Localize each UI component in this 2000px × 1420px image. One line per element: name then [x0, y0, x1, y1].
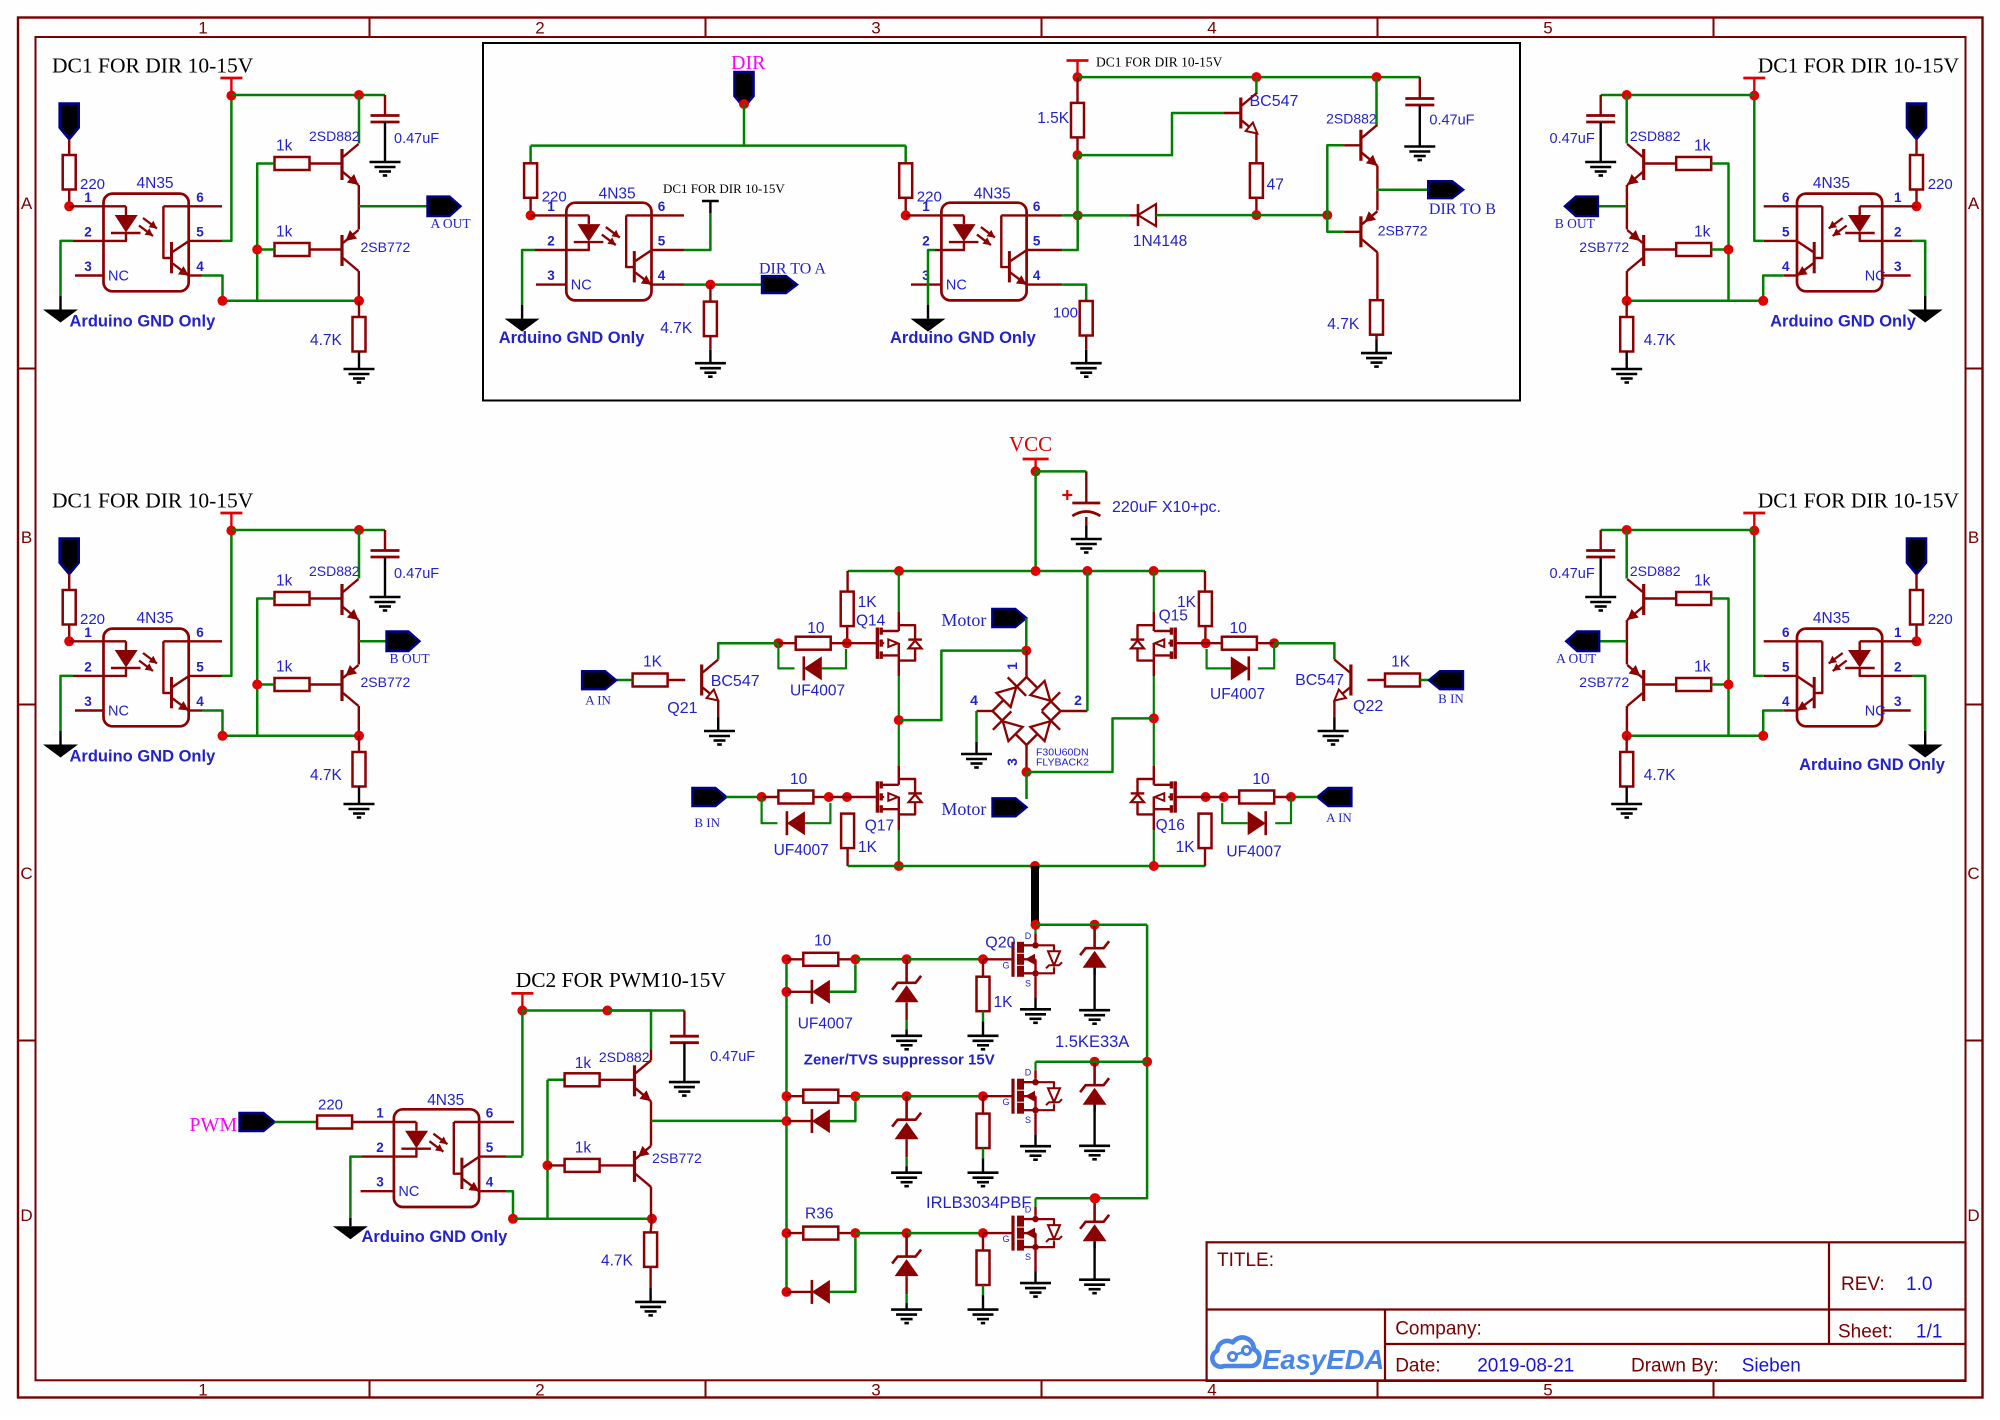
- power flag DC2: [511, 993, 533, 1010]
- svg-text:4: 4: [1033, 268, 1041, 283]
- wire [ML]: [189, 675, 222, 677]
- svg-text:6: 6: [196, 190, 204, 205]
- svg-text:1: 1: [198, 19, 207, 38]
- wire [MR]: [1599, 640, 1627, 643]
- wire [MR]: [1754, 530, 1763, 676]
- svg-text:EasyEDA: EasyEDA: [1262, 1344, 1384, 1375]
- wire: [718, 643, 778, 659]
- wire [ML]: [202, 711, 359, 736]
- junction: [978, 1091, 988, 1101]
- label 1k [ML]: [276, 659, 293, 676]
- wire [TR]: [1644, 162, 1677, 164]
- junction: [705, 280, 715, 290]
- wire: [787, 1291, 812, 1293]
- label pin2: [376, 1140, 384, 1155]
- svg-text:2SD882: 2SD882: [309, 128, 360, 144]
- label pin1: [547, 199, 555, 214]
- label 10: [807, 620, 825, 637]
- wire pin5 stub: [479, 1155, 506, 1157]
- svg-text:4: 4: [1782, 259, 1790, 274]
- label title [TR]: [1758, 54, 1960, 78]
- wire: [1275, 797, 1291, 823]
- label 1.5K: [1037, 110, 1070, 127]
- wire [TL]: [202, 276, 359, 301]
- wire: [982, 959, 984, 976]
- junction: [517, 1006, 527, 1016]
- svg-text:4: 4: [196, 259, 204, 274]
- wire: [928, 250, 935, 305]
- wire: [1367, 679, 1385, 681]
- wire: [1076, 155, 1079, 215]
- junction: [1286, 792, 1296, 802]
- svg-text:Arduino GND Only: Arduino GND Only: [890, 329, 1037, 347]
- wire [TL]: [358, 95, 361, 144]
- label 2SB772: [1378, 222, 1428, 238]
- junction dark: [1032, 1107, 1038, 1113]
- junction: [1090, 1193, 1100, 1203]
- ground [ML]: [370, 597, 401, 611]
- label Arduino GND Only [TR]: [1770, 313, 1917, 331]
- svg-text:2SD882: 2SD882: [599, 1049, 650, 1065]
- label pin1: [376, 1106, 384, 1121]
- junction [MR]: [1758, 731, 1768, 741]
- net label PWM: [189, 1114, 237, 1136]
- resistor 1.5K: [1071, 103, 1084, 137]
- wire: [855, 1232, 906, 1235]
- wire: [813, 796, 828, 798]
- svg-text:0.47uF: 0.47uF: [394, 131, 439, 147]
- label 4 (bridge): [970, 692, 978, 708]
- label Q21: [667, 700, 697, 717]
- wire pin3 stub: [911, 283, 941, 285]
- capacitor 0.47uF MR [MR]: [1586, 551, 1615, 558]
- capacitor 0.47uF TR [TR]: [1586, 116, 1615, 123]
- wire: [1085, 336, 1087, 350]
- svg-text:10: 10: [1230, 620, 1248, 637]
- junction [TL]: [252, 245, 262, 255]
- wire PWM out: [651, 1120, 787, 1123]
- svg-text:2019-08-21: 2019-08-21: [1477, 1356, 1574, 1377]
- wire [TL]: [68, 190, 70, 207]
- wire: [1376, 166, 1378, 211]
- label 2 (bridge): [1074, 692, 1082, 708]
- wire: [548, 1164, 565, 1166]
- wire [TR]: [1711, 248, 1728, 251]
- ground: [1361, 353, 1392, 367]
- svg-text:Arduino GND Only: Arduino GND Only: [1799, 756, 1946, 774]
- wire [TL]: [59, 296, 61, 310]
- junction: [508, 1214, 518, 1224]
- svg-text:2SD882: 2SD882: [1326, 111, 1377, 127]
- svg-text:2: 2: [535, 1381, 544, 1400]
- wire: [1255, 134, 1257, 163]
- pin header DIR: [735, 72, 754, 108]
- wire: [822, 649, 846, 668]
- label 4N35 [MR]: [1813, 610, 1850, 627]
- net label VCC: [1009, 432, 1052, 456]
- svg-text:1: 1: [376, 1106, 384, 1121]
- wire Q16 source: [1153, 809, 1155, 866]
- ground: [635, 1302, 666, 1316]
- wire: [709, 285, 711, 302]
- label DIR TO B: [1429, 201, 1496, 218]
- wire [MR]: [1599, 557, 1601, 597]
- label out port [ML]: [390, 651, 431, 666]
- resistor 10 (Q15 gate): [1222, 637, 1257, 650]
- port B OUT TR [TR]: [1565, 197, 1598, 217]
- label 47: [1267, 177, 1284, 194]
- wire: [982, 1011, 984, 1021]
- wire: [1093, 1105, 1095, 1146]
- label pin1 [TL]: [84, 190, 92, 205]
- mosfet Q15 (NMOS): [1131, 625, 1176, 660]
- svg-text:PWM: PWM: [189, 1114, 237, 1136]
- junction: [782, 1287, 792, 1297]
- wire: [726, 796, 761, 799]
- label Zener/TVS suppressor 15V: [804, 1052, 995, 1069]
- label 1K: [858, 594, 878, 611]
- wire: [787, 1095, 804, 1097]
- wire: [1327, 215, 1344, 232]
- wire pin3 stub: [536, 283, 566, 285]
- junction [TL]: [218, 296, 228, 306]
- wire: [787, 1120, 812, 1122]
- wire: [1062, 214, 1130, 217]
- port Motor (upper): [992, 609, 1026, 627]
- port B OUT ML [ML]: [387, 632, 420, 652]
- wire: [1094, 975, 1096, 976]
- label 4N35: [427, 1092, 464, 1109]
- svg-text:1K: 1K: [1176, 839, 1196, 856]
- junction: [1142, 1057, 1152, 1067]
- transistor BC547 Q22: [1334, 660, 1351, 701]
- diode UF4007 (row2): [812, 1109, 830, 1133]
- resistor 1K (row2): [977, 1114, 990, 1149]
- wire: [1204, 571, 1206, 592]
- wire: [350, 1157, 362, 1218]
- svg-text:1: 1: [84, 625, 92, 640]
- svg-text:6: 6: [1033, 199, 1041, 214]
- junction [ML]: [354, 731, 364, 741]
- resistor 1K (Q17 gate): [841, 814, 854, 849]
- wire Q14 source: [898, 655, 900, 784]
- wire [ML]: [384, 530, 386, 551]
- svg-text:3: 3: [871, 19, 880, 38]
- label Arduino GND Only [TL]: [70, 313, 217, 331]
- svg-text:NC: NC: [108, 269, 129, 285]
- label 2SD882 [TR]: [1630, 128, 1681, 144]
- wire right rail: [1036, 925, 1148, 1199]
- svg-text:1: 1: [547, 199, 555, 214]
- wire: [975, 711, 978, 742]
- svg-text:B: B: [21, 528, 32, 547]
- label R36: [805, 1205, 833, 1222]
- label pin3 [MR]: [1894, 694, 1902, 709]
- diode UF4007 (Q15): [1231, 656, 1249, 680]
- junction: [1372, 72, 1382, 82]
- label Q17: [865, 818, 894, 835]
- svg-text:6: 6: [1782, 190, 1790, 205]
- wire: [846, 848, 848, 866]
- resistor 1k lower ML [ML]: [275, 678, 310, 691]
- label Drawn By value: [1742, 1356, 1801, 1377]
- wire: [1027, 718, 1154, 772]
- label DC1 FOR DIR 10-15V: [663, 181, 785, 196]
- svg-text:2SB772: 2SB772: [1579, 674, 1629, 690]
- junction [MR]: [1749, 526, 1759, 536]
- svg-text:Motor: Motor: [941, 610, 986, 630]
- wire: [838, 958, 855, 960]
- label pin1: [922, 199, 930, 214]
- svg-text:DC1 FOR DIR 10-15V: DC1 FOR DIR 10-15V: [52, 54, 254, 78]
- svg-text:DIR TO B: DIR TO B: [1429, 201, 1496, 218]
- ground: [1020, 1009, 1051, 1023]
- svg-text:4.7K: 4.7K: [310, 767, 343, 784]
- label out port [MR]: [1556, 651, 1597, 666]
- wire: [855, 958, 906, 961]
- label 1k [TR]: [1694, 138, 1711, 155]
- resistor 220 TL [TL]: [63, 155, 76, 190]
- junction: [1090, 1193, 1100, 1203]
- wire: [1175, 642, 1206, 644]
- wire [MR]: [1626, 620, 1628, 665]
- label Arduino GND Only: [890, 329, 1037, 347]
- port A IN: [582, 671, 616, 689]
- wire [TR]: [1711, 164, 1728, 301]
- label pin5: [658, 234, 666, 249]
- wire [TL]: [68, 139, 70, 155]
- svg-text:BC547: BC547: [1295, 672, 1344, 689]
- svg-text:10: 10: [1252, 771, 1270, 788]
- ground [TL]: [344, 369, 375, 383]
- label pin3: [922, 268, 930, 283]
- svg-text:R36: R36: [805, 1205, 833, 1222]
- wire: [275, 1121, 318, 1124]
- label 1k [TL]: [276, 224, 293, 241]
- svg-text:A IN: A IN: [585, 693, 611, 708]
- svg-text:2: 2: [84, 660, 92, 675]
- diode bridge FLYBACK2 F30U60DN: [993, 677, 1061, 745]
- resistor 4.7K MR [MR]: [1620, 752, 1633, 787]
- label A IN: [1326, 810, 1352, 825]
- wire: [846, 571, 848, 592]
- ground Arduino GND [ML]: [43, 745, 78, 758]
- junction [TL]: [354, 90, 364, 100]
- wire: [982, 1295, 984, 1310]
- label 2SD882: [1326, 111, 1377, 127]
- resistor 10 (row2): [803, 1090, 838, 1103]
- wire: [787, 1232, 804, 1234]
- wire [MR]: [1882, 709, 1911, 711]
- label pin2 [TL]: [84, 225, 92, 240]
- wire: [983, 1232, 1013, 1234]
- wire: [649, 1288, 651, 1302]
- label A IN: [585, 693, 611, 708]
- wire [TL]: [310, 162, 343, 164]
- wire: [1333, 701, 1335, 718]
- wire [TR]: [1599, 95, 1601, 116]
- label 1K: [994, 994, 1014, 1011]
- label 220 [ML]: [80, 611, 105, 628]
- label DC1 FOR DIR 10-15V: [1096, 55, 1223, 70]
- junction: [1201, 792, 1211, 802]
- svg-text:DC1 FOR DIR 10-15V: DC1 FOR DIR 10-15V: [52, 489, 254, 513]
- resistor 4.7K ML [ML]: [353, 752, 366, 787]
- port Motor (lower): [993, 798, 1027, 816]
- ground Arduino GND [MR]: [1908, 745, 1943, 758]
- svg-text:220: 220: [1928, 176, 1953, 193]
- label pin5 [MR]: [1782, 660, 1790, 675]
- resistor 220 (DIR B): [899, 163, 912, 198]
- label 1k [MR]: [1694, 573, 1711, 590]
- power flag VCC: [1023, 459, 1049, 471]
- wire [TL]: [358, 185, 360, 230]
- wire [ML]: [310, 683, 343, 685]
- wire [TL]: [257, 248, 274, 251]
- ground: [1404, 147, 1435, 161]
- diode UF4007 (Q17): [787, 811, 805, 835]
- svg-text:3: 3: [84, 259, 92, 274]
- mosfet IRLB3034PBF (row2): [1002, 1068, 1062, 1126]
- junction [TL]: [226, 91, 236, 101]
- svg-text:UF4007: UF4007: [774, 842, 829, 859]
- optocoupler 4N35 TR [TR]: [1797, 194, 1886, 292]
- svg-text:5: 5: [196, 225, 204, 240]
- wire DIR rail: [531, 144, 906, 147]
- label pin2: [547, 234, 555, 249]
- junction: [902, 954, 912, 964]
- pin header MR input [MR]: [1907, 539, 1926, 575]
- label pin1 [ML]: [84, 625, 92, 640]
- svg-text:10: 10: [807, 620, 825, 637]
- svg-text:BC547: BC547: [1250, 93, 1299, 110]
- svg-text:2SB772: 2SB772: [652, 1150, 702, 1166]
- ground Arduino GND: [333, 1226, 368, 1239]
- label pin5 [TR]: [1782, 225, 1790, 240]
- wire: [743, 104, 746, 146]
- diode UF4007 (row1): [812, 980, 830, 1004]
- svg-text:1.5KE33A: 1.5KE33A: [1055, 1033, 1129, 1051]
- junction dark: [1032, 1244, 1038, 1250]
- svg-text:B OUT: B OUT: [390, 651, 431, 666]
- label pin3 [TR]: [1894, 259, 1902, 274]
- junction: [894, 566, 904, 576]
- junction: [739, 99, 749, 109]
- label 4.7K [MR]: [1644, 767, 1677, 784]
- svg-text:2SB772: 2SB772: [1579, 239, 1629, 255]
- wire bridge pin1: [1025, 651, 1027, 677]
- power flag DC1 small: [702, 201, 719, 213]
- wire: [1344, 144, 1361, 146]
- label Sheet:: [1838, 1322, 1893, 1343]
- label UF4007: [798, 1016, 853, 1033]
- wire [ML]: [69, 640, 103, 642]
- wire [MR]: [1644, 683, 1677, 685]
- svg-text:DC1 FOR DIR 10-15V: DC1 FOR DIR 10-15V: [1758, 489, 1960, 513]
- wire [TL]: [231, 94, 385, 97]
- wire: [787, 991, 812, 993]
- svg-text:6: 6: [1782, 625, 1790, 640]
- wire: [709, 336, 711, 350]
- optocoupler 4N35 (DIR B): [941, 203, 1026, 301]
- zener TVS (row2): [891, 1096, 922, 1186]
- wire: [983, 1095, 1013, 1097]
- transistor 2SD882 TL (NPN) [TL]: [342, 144, 359, 185]
- label 2SB772 [TL]: [361, 239, 411, 255]
- wire [TR]: [1882, 205, 1916, 207]
- svg-text:UF4007: UF4007: [798, 1016, 853, 1033]
- wire: [838, 1232, 855, 1234]
- label 4.7K: [1327, 316, 1360, 333]
- mosfet Q16 (NMOS): [1131, 779, 1176, 814]
- pin header TL input [TL]: [60, 104, 79, 140]
- svg-text:D: D: [1025, 931, 1032, 941]
- TVS 1.5KE33A (row2): [1080, 1062, 1109, 1112]
- junction [TR]: [1724, 245, 1734, 255]
- wire: [651, 1219, 652, 1233]
- label DIR TO A: [759, 261, 826, 278]
- resistor 1k upper ML [ML]: [275, 592, 310, 605]
- junction: [1090, 1057, 1100, 1067]
- label 2SD882 [TL]: [309, 128, 360, 144]
- junction: [1031, 920, 1041, 930]
- resistor 1k upper TL [TL]: [275, 157, 310, 170]
- svg-text:A: A: [21, 194, 33, 213]
- label 3 (bridge): [1004, 758, 1020, 766]
- label pin5 [TL]: [196, 225, 204, 240]
- svg-text:3: 3: [1894, 694, 1902, 709]
- wire: [982, 1233, 984, 1250]
- wire: [1206, 642, 1222, 644]
- wire [MR]: [1644, 597, 1677, 599]
- wire pin4 stub: [652, 283, 685, 285]
- label pin6 [MR]: [1782, 625, 1790, 640]
- label 10: [814, 933, 832, 950]
- svg-text:VCC: VCC: [1009, 432, 1052, 456]
- svg-text:B: B: [1968, 528, 1979, 547]
- ground [TR]: [1585, 162, 1616, 176]
- label 0.47uF [TL]: [394, 131, 439, 147]
- svg-text:2SB772: 2SB772: [361, 674, 411, 690]
- wire: [1327, 145, 1344, 215]
- junction [TR]: [1622, 296, 1632, 306]
- wire: [649, 1267, 651, 1288]
- svg-text:1: 1: [922, 199, 930, 214]
- wire: [650, 1101, 652, 1146]
- junction: [1030, 861, 1040, 871]
- svg-text:0.47uF: 0.47uF: [394, 566, 439, 582]
- label pin6: [486, 1106, 494, 1121]
- transistor 2SB772 (PWM): [635, 1146, 652, 1187]
- resistor 1k (PWM upper): [565, 1073, 600, 1086]
- wire: [983, 958, 1013, 960]
- wire: [982, 1096, 984, 1113]
- wire: [1076, 77, 1078, 103]
- wire: [830, 1238, 856, 1292]
- transistor 2SD882 ML (NPN) [ML]: [342, 579, 359, 620]
- wire DC2 rail: [522, 1009, 684, 1012]
- ground: [1079, 1010, 1110, 1024]
- svg-text:2SD882: 2SD882: [1630, 128, 1681, 144]
- svg-text:1K: 1K: [858, 839, 878, 856]
- svg-text:0.47uF: 0.47uF: [1550, 566, 1595, 582]
- title block frame: [1207, 1242, 1966, 1381]
- svg-text:4N35: 4N35: [1813, 175, 1850, 192]
- wire: [838, 1095, 855, 1097]
- label B IN: [694, 815, 720, 830]
- wire: [805, 803, 831, 823]
- label pin6: [658, 199, 666, 214]
